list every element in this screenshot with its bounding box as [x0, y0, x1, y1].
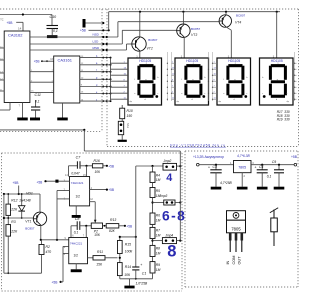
7-seg display HD1105: [128, 58, 162, 105]
svg-text:+5В: +5В: [34, 60, 40, 64]
svg-text:0,047: 0,047: [71, 172, 79, 176]
svg-text:R11: R11: [97, 250, 103, 254]
svg-text:+5В: +5В: [291, 155, 298, 159]
svg-text:C1: C1: [142, 271, 147, 275]
resistor R2: [41, 240, 43, 245]
bus columns display 3: [208, 52, 210, 101]
svg-text:1М: 1М: [156, 218, 161, 222]
svg-text:74HC221: 74HC221: [70, 242, 83, 246]
bus columns display 2: [166, 52, 168, 101]
svg-text:Jmp4: Jmp4: [165, 234, 173, 238]
svg-text:OUT: OUT: [238, 256, 242, 265]
svg-text:CA3162: CA3162: [8, 33, 23, 38]
svg-text:4,7*6.3В: 4,7*6.3В: [237, 154, 250, 158]
svg-text:+5В: +5В: [37, 180, 43, 184]
capacitor C1 electrolytic: [135, 166, 137, 267]
svg-text:1N4148: 1N4148: [19, 198, 31, 202]
capacitor C9: [278, 165, 280, 170]
svg-text:+: +: [255, 166, 257, 170]
svg-text:BC807: BC807: [148, 38, 158, 42]
svg-text:VD1: VD1: [26, 191, 33, 195]
DD1 ground: [75, 206, 77, 215]
7-seg display HD1105: [175, 58, 209, 105]
IC2 ground: [62, 103, 64, 118]
svg-text:LSD: LSD: [93, 39, 100, 43]
resistor R7: [152, 224, 154, 227]
bus column before display 1: [110, 58, 112, 102]
svg-text:100К: 100К: [125, 249, 134, 253]
node wire B to VT1 base: [4, 217, 33, 219]
transistor VT2 BC807: [132, 37, 146, 51]
svg-text:+5В: +5В: [13, 181, 20, 185]
svg-text:1,0*25В: 1,0*25В: [136, 281, 149, 285]
svg-text:22К: 22К: [10, 229, 18, 233]
svg-text:6-8: 6-8: [162, 209, 186, 224]
+5V rail display board: [108, 12, 110, 31]
ground C10: [51, 29, 53, 36]
resistor R10: [121, 105, 123, 108]
svg-text:0,1: 0,1: [53, 29, 58, 33]
svg-text:R13: R13: [110, 218, 116, 222]
capacitor C10: [51, 15, 53, 26]
svg-text:httр://1298792458.bin.ru: httр://1298792458.bin.ru: [170, 143, 226, 147]
transistor VT4 BC807: [219, 15, 231, 27]
bottom node wire: [120, 278, 153, 280]
svg-text:+: +: [208, 166, 210, 170]
svg-text:+5В: +5В: [7, 21, 14, 25]
svg-text:BC857: BC857: [25, 227, 35, 231]
capacitor C3: [215, 165, 217, 170]
transistor VT1 BC857: [33, 212, 46, 225]
svg-text:R5: R5: [156, 189, 160, 193]
svg-text:R14: R14: [125, 265, 131, 269]
svg-text:+5В: +5В: [80, 29, 86, 33]
ground feed to display board: [83, 19, 86, 28]
svg-text:1М: 1М: [156, 178, 161, 182]
svg-text:+5В: +5В: [108, 188, 114, 192]
svg-text:R10: R10: [127, 109, 133, 113]
svg-text:VT3: VT3: [191, 33, 197, 37]
transistor VT3 BC857: [177, 24, 190, 37]
svg-text:VT1: VT1: [25, 219, 31, 223]
jumper bus: [179, 151, 181, 241]
svg-text:COM: COM: [232, 256, 236, 265]
svg-text:R4: R4: [156, 173, 160, 177]
resistor R8: [150, 245, 155, 256]
svg-text:R12: R12: [11, 198, 17, 202]
digit select wire NSD: [30, 36, 118, 38]
+5V rail top-left: [0, 14, 52, 16]
resistor R9: [152, 257, 154, 262]
op IC U2 CA3161: [54, 56, 80, 103]
svg-text:Jmp3: Jmp3: [160, 194, 168, 198]
svg-text:IN: IN: [226, 260, 230, 264]
svg-text:0,1: 0,1: [267, 175, 272, 179]
svg-text:14: 14: [18, 27, 22, 31]
emitter node wire: [41, 239, 69, 241]
output wire +5V: [251, 164, 295, 166]
svg-text:+5В: +5В: [126, 224, 132, 228]
svg-text:1/2: 1/2: [76, 195, 81, 199]
svg-text:+5В: +5В: [108, 164, 114, 168]
svg-text:BC807: BC807: [236, 14, 246, 18]
node wire A: [4, 193, 40, 195]
svg-text:470: 470: [46, 250, 52, 254]
op IC U1 CA3162: [4, 31, 30, 103]
svg-text:R9: R9: [156, 263, 160, 267]
svg-text:NSD: NSD: [93, 32, 100, 36]
resistor R12: [7, 194, 9, 204]
resistor R15: [119, 237, 121, 241]
svg-text:C8: C8: [75, 217, 80, 221]
svg-text:150: 150: [127, 114, 133, 118]
trimmer P2: [91, 223, 102, 228]
capacitor C11: [35, 100, 37, 107]
svg-text:R8: R8: [156, 247, 160, 251]
svg-text:VT4: VT4: [235, 20, 241, 24]
svg-text:CA3161: CA3161: [58, 58, 73, 63]
display1 pin wires: [111, 62, 129, 64]
C7 pin drops: [68, 166, 70, 177]
D4 anode feed: [276, 12, 278, 58]
7-seg display HD1105: [217, 58, 251, 105]
svg-text:+13,2В Аккумулятор: +13,2В Аккумулятор: [193, 155, 224, 159]
diode package: [273, 210, 275, 219]
svg-text:Jmp2: Jmp2: [164, 159, 172, 163]
svg-text:1М: 1М: [156, 252, 161, 256]
svg-text:R3: R3: [11, 220, 15, 224]
svg-text:MSD: MSD: [93, 46, 101, 50]
svg-text:C10: C10: [50, 15, 57, 19]
node wire R15 top: [120, 236, 136, 238]
svg-text:R6: R6: [156, 213, 160, 217]
bus column display 4 right: [294, 52, 296, 101]
svg-text:+: +: [140, 263, 142, 267]
svg-text:1/2: 1/2: [74, 254, 79, 258]
resistor R14: [117, 263, 122, 276]
timer IC DD2 74HC221: [69, 238, 88, 264]
svg-text:VT2: VT2: [147, 47, 153, 51]
svg-text:SA1: SA1: [126, 123, 130, 128]
svg-text:C9: C9: [272, 160, 276, 164]
svg-text:22К: 22К: [10, 208, 18, 212]
svg-text:C11: C11: [35, 93, 41, 97]
interboard wire: [0, 129, 84, 131]
DD2 ground: [75, 264, 77, 270]
svg-text:BC857: BC857: [191, 27, 201, 31]
resistor R6: [150, 213, 155, 224]
svg-text:4,7*25В: 4,7*25В: [220, 181, 233, 185]
7805 package TO-220: [227, 211, 246, 221]
svg-text:1М: 1М: [156, 234, 161, 238]
wires IC1 to IC2: [30, 71, 54, 73]
left rail down: [3, 194, 5, 273]
IC1 left pin stubs: [0, 47, 4, 49]
IC1 bottom-left exit wire: [9, 103, 11, 111]
7805 ground pin2: [241, 173, 243, 187]
svg-text:R15: R15: [125, 242, 131, 246]
svg-text:R7: R7: [156, 229, 160, 233]
svg-text:C4: C4: [259, 165, 263, 169]
svg-text:0,1: 0,1: [74, 230, 79, 234]
svg-text:R19 330: R19 330: [277, 117, 290, 121]
svg-text:4: 4: [166, 172, 172, 184]
svg-text:7805: 7805: [238, 165, 246, 169]
divider input wire: [136, 165, 163, 167]
svg-text:8: 8: [167, 243, 176, 261]
segment wires IC2 to bus: [80, 57, 111, 59]
svg-text:0,1: 0,1: [35, 100, 40, 104]
regulator U3 7805: [234, 161, 252, 173]
jumper SA1 below display: [121, 119, 123, 122]
ground bottom-left board: [129, 279, 131, 286]
wire +5V to pin14: [16, 21, 23, 23]
resistor R4: [152, 166, 154, 172]
timer IC DD1 74HC221: [70, 177, 90, 206]
svg-text:1М: 1М: [156, 268, 161, 272]
svg-text:C3: C3: [213, 165, 217, 169]
resistor R3: [7, 218, 9, 225]
digit select wire MSD: [30, 49, 127, 51]
resistor R5: [152, 183, 154, 188]
ground under jumper: [121, 135, 123, 140]
7-seg display HD1105: [260, 58, 294, 105]
svg-text:R16: R16: [94, 159, 100, 163]
svg-text:+5В: +5В: [52, 281, 59, 285]
digit select wire LSD: [30, 43, 122, 45]
capacitor C4: [261, 165, 263, 170]
svg-text:7805: 7805: [231, 226, 241, 231]
dashed board borders: [0, 8, 299, 10]
svg-text:R2: R2: [46, 245, 50, 249]
svg-text:74HC221: 74HC221: [71, 181, 84, 185]
svg-text:ТС: ТС: [0, 18, 3, 21]
